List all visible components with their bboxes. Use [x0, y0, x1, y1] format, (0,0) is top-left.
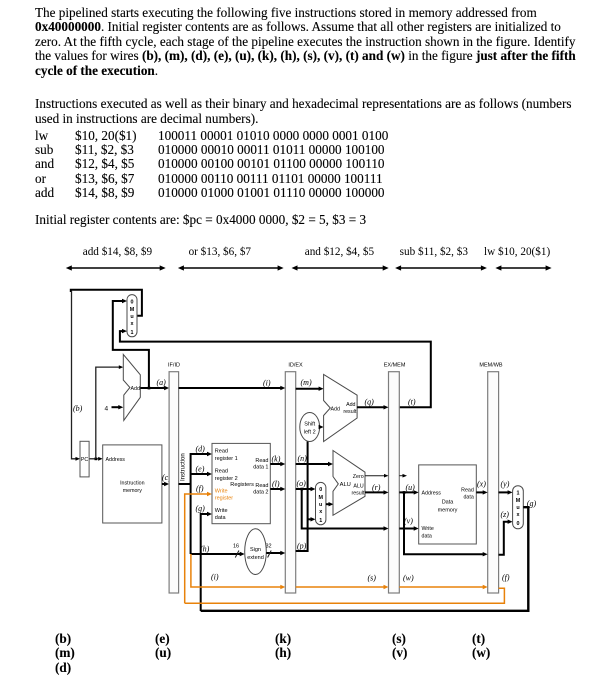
wire (g): write data into register file: [201, 514, 209, 611]
wire (l): read data 2 to ID/EX: [270, 488, 282, 490]
junction dot PC output: [95, 458, 98, 461]
svg-text:result: result: [351, 490, 364, 496]
mux PCSrc: [127, 295, 137, 337]
mux ALUSrc: [316, 482, 326, 524]
svg-text:(o): (o): [297, 479, 307, 488]
svg-text:(w): (w): [403, 574, 414, 583]
svg-text:(k): (k): [272, 455, 281, 464]
wire (q): branch target to EX/MEM: [357, 406, 385, 408]
wire (k): read data 1 to ID/EX: [270, 463, 282, 465]
stage arrow ID: [182, 267, 280, 269]
svg-text:Zero: Zero: [353, 474, 364, 480]
svg-text:0: 0: [517, 521, 520, 527]
svg-text:(f): (f): [502, 573, 510, 582]
svg-text:0: 0: [131, 299, 134, 305]
svg-text:Read: Read: [255, 483, 268, 489]
stage arrow IF: [70, 267, 162, 269]
wire (s): write register number rail, EX segment (orange): [296, 586, 386, 588]
svg-text:register: register: [215, 496, 234, 502]
data memory: [419, 465, 477, 544]
junction dot read data 2: [300, 488, 303, 491]
wire (i): write register number rail, ID segment (orange): [191, 554, 282, 587]
wire sign extend output (p) to ID/EX: [266, 552, 282, 554]
svg-text:PC: PC: [81, 457, 89, 463]
svg-text:(t): (t): [408, 398, 416, 407]
wire (f): write register number return from MEM/WB (orange): [185, 588, 505, 603]
wire (x): read data to MEM/WB: [476, 491, 484, 493]
instruction table: [35, 129, 48, 142]
svg-text:(r): (r): [372, 483, 381, 492]
register file: [212, 443, 270, 523]
svg-text:Write: Write: [215, 489, 228, 495]
svg-text:(h): (h): [200, 545, 210, 554]
svg-text:ALU: ALU: [353, 483, 363, 489]
wire (p): sign extended immediate up to shift left 2: [296, 442, 308, 552]
svg-text:(b): (b): [73, 404, 83, 413]
svg-text:Address: Address: [106, 457, 126, 463]
sign extend oval: [245, 529, 267, 575]
svg-text:data: data: [463, 495, 473, 501]
wire (f): write register number (orange): [185, 494, 209, 603]
wire (o): read data 2 to ALUSrc mux: [296, 488, 312, 490]
svg-text:Data: Data: [442, 500, 455, 506]
stage arrow MEM: [399, 267, 483, 269]
svg-text:M: M: [516, 498, 521, 504]
wire PC up to Add: [96, 367, 120, 459]
wire (b): PCSrc mux output to PC: [71, 290, 142, 316]
wire: store data down to EX/MEM: [302, 489, 385, 529]
wire Zero stub out of EX/MEM: [399, 475, 403, 477]
adder Add result (branch target): [324, 374, 358, 441]
svg-text:(z): (z): [501, 510, 510, 519]
paragraph text: [35, 6, 537, 19]
svg-text:1: 1: [517, 491, 520, 497]
svg-text:Write: Write: [422, 526, 434, 532]
svg-text:(d): (d): [196, 445, 206, 454]
svg-text:ALU: ALU: [340, 482, 351, 488]
svg-text:(v): (v): [404, 517, 413, 526]
wire PC to instruction memory address: [89, 458, 100, 460]
wire (r): ALU result to EX/MEM: [365, 491, 385, 493]
wire shift left 2 to Add result: [319, 426, 322, 428]
svg-text:Read: Read: [255, 458, 268, 464]
wire (v): store data into data memory: [399, 528, 415, 530]
svg-text:(q): (q): [365, 398, 375, 407]
svg-text:(i): (i): [263, 379, 271, 388]
svg-text:16: 16: [233, 544, 239, 550]
svg-text:M: M: [318, 495, 323, 501]
wire (h): immediate to sign extend: [191, 553, 242, 555]
svg-text:Shift: Shift: [304, 422, 315, 428]
svg-text:MEM/WB: MEM/WB: [479, 363, 503, 369]
svg-text:Add: Add: [346, 402, 355, 408]
svg-text:(s): (s): [368, 574, 377, 583]
answer blanks list: [55, 632, 71, 645]
svg-text:Read: Read: [215, 449, 228, 455]
svg-text:(g): (g): [196, 504, 206, 513]
svg-text:0: 0: [319, 487, 322, 493]
svg-text:(i): (i): [211, 573, 219, 582]
svg-text:Registers: Registers: [230, 482, 254, 488]
svg-text:(e): (e): [196, 465, 205, 474]
svg-text:data: data: [422, 534, 432, 540]
svg-text:register 1: register 1: [215, 456, 238, 462]
ALU: [333, 451, 365, 516]
junction dot PC+4: [148, 387, 151, 390]
wire (g): write-back loop from WB mux: [201, 507, 529, 611]
wire PC+4 feedback to mux input 0: [113, 301, 149, 388]
wire (t): branch target return to mux input 1: [120, 331, 431, 407]
svg-text:sub $11, $2, $3: sub $11, $2, $3: [400, 246, 469, 258]
wire (d): read register 1 number: [191, 453, 209, 455]
junction dot ALU result: [403, 491, 406, 494]
svg-text:Read: Read: [461, 488, 474, 494]
svg-text:Address: Address: [422, 491, 442, 497]
svg-text:memory: memory: [123, 488, 142, 494]
svg-text:32: 32: [266, 544, 272, 550]
svg-text:data 1: data 1: [253, 465, 268, 471]
shift left 2 oval: [300, 413, 320, 442]
svg-text:(l): (l): [272, 480, 280, 489]
wire (m): PC+4 to Add result: [296, 388, 320, 390]
svg-text:u: u: [319, 502, 322, 508]
svg-text:Read: Read: [215, 469, 228, 475]
stage arrow WB: [499, 267, 547, 269]
svg-text:x: x: [517, 512, 520, 518]
svg-text:(g): (g): [527, 499, 537, 508]
svg-text:IF/ID: IF/ID: [168, 363, 180, 369]
svg-text:(y): (y): [501, 480, 510, 489]
wire (a): PC+4 into IF/ID: [140, 387, 165, 389]
instruction stub from IF/ID: [179, 483, 191, 485]
svg-text:(f): (f): [196, 484, 204, 493]
svg-text:Write: Write: [215, 508, 228, 514]
svg-text:Instruction: Instruction: [181, 453, 187, 481]
svg-text:M: M: [130, 307, 135, 313]
svg-text:1: 1: [319, 518, 322, 524]
svg-text:memory: memory: [438, 508, 458, 514]
svg-text:Instruction: Instruction: [120, 481, 144, 487]
adder Add (PC+4): [123, 354, 140, 420]
PC register: [80, 441, 89, 477]
wire ALUSrc mux to ALU: [326, 503, 330, 505]
wire (w): write register number rail, MEM segment (orange): [399, 586, 484, 588]
wire (u): address into data memory: [399, 491, 415, 493]
instruction bus vertical: [190, 453, 192, 554]
wire (c): instruction into IF/ID: [162, 483, 166, 485]
svg-text:Add: Add: [331, 406, 340, 412]
wire: ALU result down to MEM/WB: [404, 492, 484, 554]
svg-text:Add: Add: [131, 386, 140, 392]
wire (n): ALU operand 1: [296, 463, 330, 465]
stage arrow EX: [296, 267, 385, 269]
svg-text:data 2: data 2: [253, 490, 268, 496]
mux MemtoReg: [513, 486, 524, 529]
svg-text:u: u: [516, 505, 519, 511]
wire Zero to EX/MEM: [365, 475, 386, 477]
svg-text:u: u: [130, 314, 133, 320]
svg-text:add $14, $8, $9: add $14, $8, $9: [83, 246, 153, 258]
svg-text:Sign: Sign: [250, 547, 261, 553]
svg-text:4: 4: [105, 406, 109, 413]
instruction memory: [103, 445, 162, 523]
svg-text:EX/MEM: EX/MEM: [384, 363, 406, 369]
svg-text:(u): (u): [406, 483, 416, 492]
svg-text:or $13, $6, $7: or $13, $6, $7: [189, 246, 252, 258]
svg-text:x: x: [319, 509, 322, 515]
wire: immediate to ALUSrc mux input 1: [308, 518, 313, 520]
svg-text:ID/EX: ID/EX: [288, 363, 303, 369]
svg-text:and $12, $4, $5: and $12, $4, $5: [305, 246, 375, 258]
wire (z): ALU result to WB mux input 0: [499, 522, 510, 555]
wire (e): read register 2 number: [191, 473, 209, 475]
svg-text:1: 1: [131, 330, 134, 336]
wire (i): PC+4 from IF/ID to ID/EX: [179, 387, 282, 389]
svg-text:extend: extend: [247, 555, 264, 561]
svg-text:x: x: [131, 321, 134, 327]
wire (y): memory data to WB mux input 1: [499, 491, 510, 493]
svg-text:(n): (n): [298, 454, 308, 463]
svg-text:(m): (m): [301, 378, 312, 387]
svg-text:(x): (x): [477, 480, 486, 489]
svg-text:result: result: [343, 409, 356, 415]
svg-text:lw $10, 20($1): lw $10, 20($1): [484, 246, 550, 258]
svg-text:data: data: [215, 515, 227, 521]
svg-text:left 2: left 2: [304, 430, 316, 436]
svg-text:(p): (p): [297, 542, 307, 551]
svg-text:(a): (a): [157, 378, 167, 387]
